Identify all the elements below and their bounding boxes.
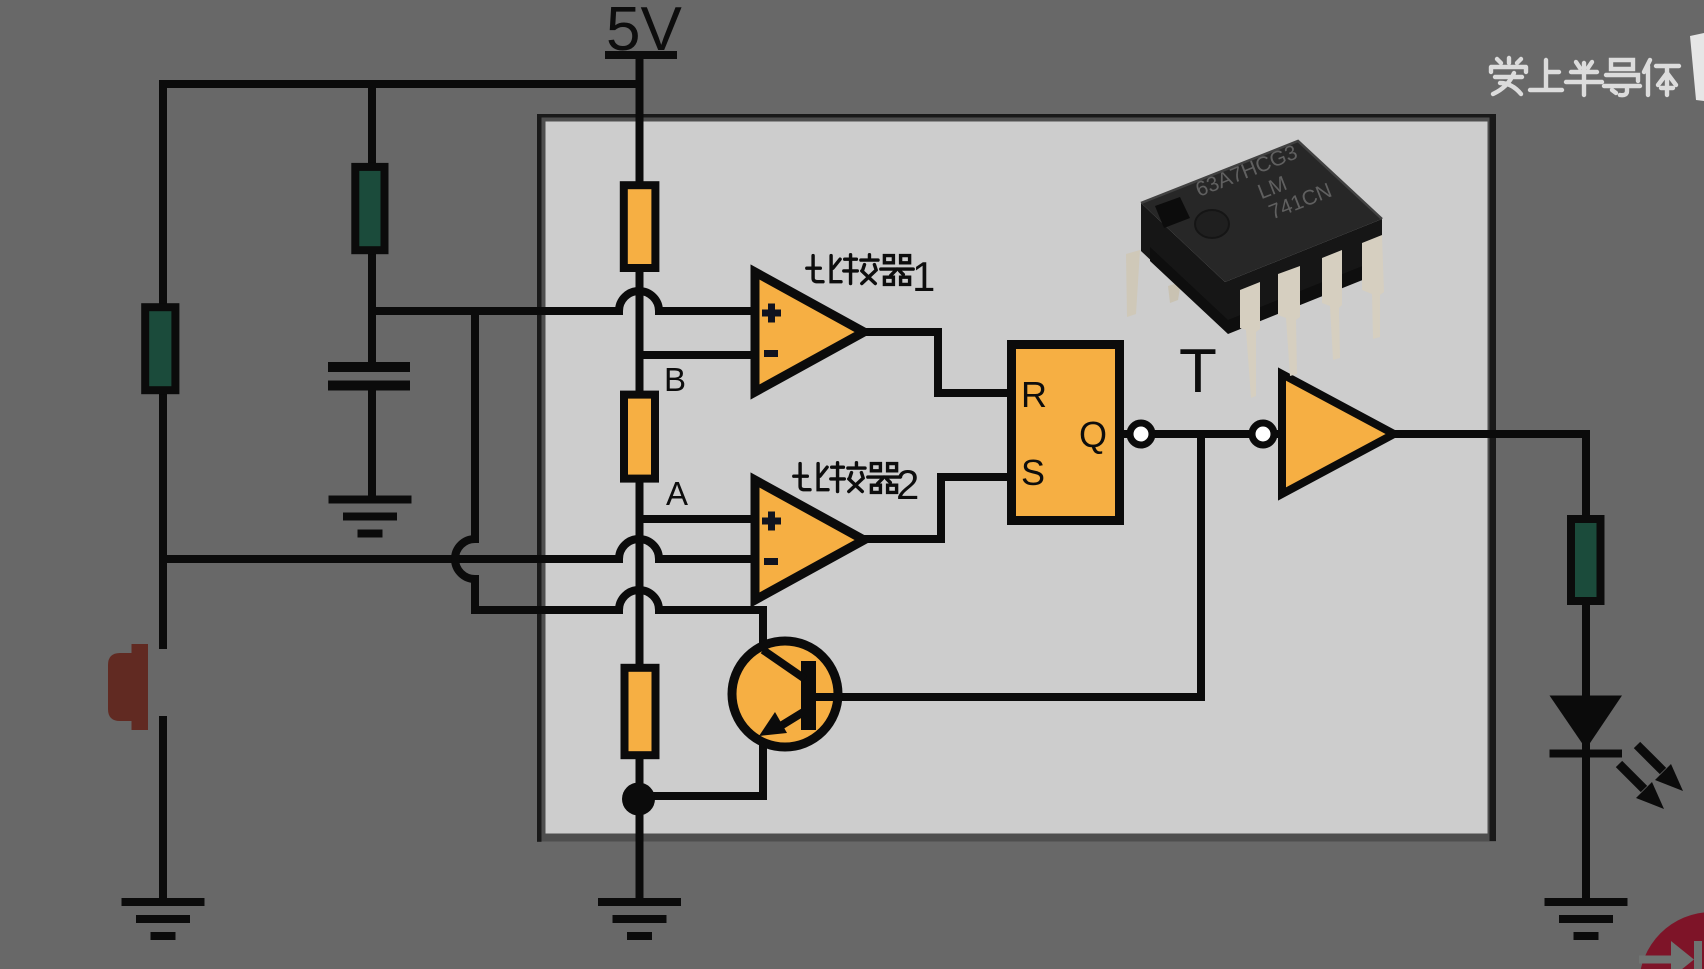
chip body side band: [1141, 203, 1382, 330]
svg-text:Q: Q: [1079, 414, 1107, 455]
chip pin 4 (front): [1362, 235, 1384, 339]
chip notch: [1155, 197, 1190, 228]
555 internals box border left: [537, 114, 542, 842]
inverter buffer: [1282, 374, 1394, 494]
node: inverter input bubble: [1252, 423, 1274, 445]
wire: comparator 1 output to R input: [864, 332, 1010, 393]
resistor (top branch, green): [355, 167, 384, 250]
channel logo pennant: [1690, 33, 1704, 101]
wire: branch down to transistor collector (hops over trigger wire and center rail): [455, 311, 763, 645]
resistor R3 (orange, bottom of divider): [625, 668, 656, 755]
ground (left rail): [122, 898, 205, 940]
svg-text:B: B: [664, 361, 686, 398]
back-left pin: [1126, 250, 1140, 317]
wire: transistor emitter to rail junction: [640, 740, 763, 796]
wire: left rail lower segment: [159, 716, 167, 898]
wire: branch vertical to capacitor: [368, 80, 376, 363]
wire: top 5V rail horizontal: [163, 80, 640, 88]
RS flip-flop: [1012, 345, 1120, 521]
LED: [1550, 696, 1684, 810]
IC chip photo (DIP-8 LM741CN): [1126, 134, 1384, 398]
wire: node B to comparator 1 - input: [639, 351, 755, 359]
wire: Q output to inverter: [1124, 430, 1284, 438]
comparator 2 label: [794, 461, 920, 508]
555 internals box fill: [546, 122, 1488, 834]
chip body lower tier: [1150, 247, 1375, 334]
chip marking text: [1192, 134, 1335, 246]
wire: T branch down to transistor base: [839, 434, 1201, 697]
svg-text:2: 2: [896, 461, 919, 508]
wire: comparator 2 output to S input: [864, 477, 1010, 539]
ground (LED): [1545, 898, 1628, 940]
svg-text:R: R: [1021, 374, 1047, 415]
svg-text:A: A: [666, 475, 688, 512]
wire: capacitor to ground: [368, 389, 376, 496]
chip top face: [1141, 141, 1382, 282]
channel logo text: [1491, 58, 1679, 95]
transistor (discharge): [732, 641, 839, 747]
555 internals box border right: [1490, 114, 1497, 841]
capacitor C: [328, 362, 410, 391]
wire: trigger wire to comparator 2 - input (hops over center rail): [163, 539, 755, 559]
comparator 2: [755, 480, 864, 600]
ground (capacitor): [329, 496, 412, 538]
junction dot (discharge node): [622, 783, 655, 816]
svg-text:T: T: [1179, 337, 1217, 406]
comparator 1: [755, 272, 864, 392]
chip dimple: [1195, 210, 1229, 238]
chip pin 2 (front): [1278, 266, 1300, 376]
chip pin 1 (front): [1240, 282, 1260, 398]
wire: left rail upper segment: [159, 80, 167, 649]
resistor R1 (orange, top of divider): [624, 185, 656, 268]
wire: center 5V rail vertical: [636, 55, 644, 898]
resistor (left, green): [145, 307, 175, 390]
chip pin 3 (front): [1322, 250, 1342, 360]
wire: node A to comparator 2 + input: [639, 515, 755, 523]
comparator 1 label: [807, 253, 936, 300]
back-left pin 2: [1168, 282, 1181, 303]
channel logo circle (bottom right): [1639, 912, 1704, 969]
resistor (right, green): [1571, 519, 1601, 601]
ground (center rail): [598, 898, 681, 940]
pushbutton (dark red): [108, 644, 148, 730]
wire: inverter output to right rail: [1394, 434, 1586, 898]
555 internals box border top: [537, 114, 1496, 118]
555 internals box dark offset frame: [542, 118, 1497, 842]
5V supply label: [605, 0, 682, 64]
wire: threshold wire to comparator 1 + input (hops over center rail): [372, 291, 755, 311]
resistor R2 (orange, middle of divider): [624, 395, 655, 479]
svg-text:1: 1: [912, 253, 935, 300]
node: Q output bubble: [1130, 423, 1152, 445]
svg-text:S: S: [1021, 452, 1045, 493]
